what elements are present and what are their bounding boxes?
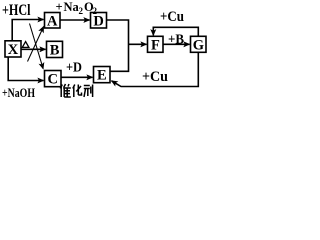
svg-text:2: 2 (93, 6, 98, 16)
svg-text:+HCl: +HCl (2, 2, 31, 19)
svg-text:+B: +B (168, 33, 184, 48)
svg-text:Na: Na (64, 0, 80, 14)
svg-text:A: A (47, 13, 58, 29)
svg-text:+: + (56, 0, 63, 14)
svg-text:F: F (151, 37, 160, 53)
svg-text:C: C (48, 72, 58, 88)
svg-text:X: X (8, 42, 19, 58)
svg-text:+NaOH: +NaOH (2, 85, 35, 99)
svg-text:G: G (193, 37, 204, 53)
svg-text:+D: +D (66, 61, 82, 76)
svg-text:B: B (50, 42, 60, 58)
svg-text:2: 2 (79, 6, 84, 16)
svg-text:+Cu: +Cu (142, 69, 168, 85)
svg-text:+Cu: +Cu (160, 9, 184, 25)
svg-text:E: E (97, 68, 107, 84)
